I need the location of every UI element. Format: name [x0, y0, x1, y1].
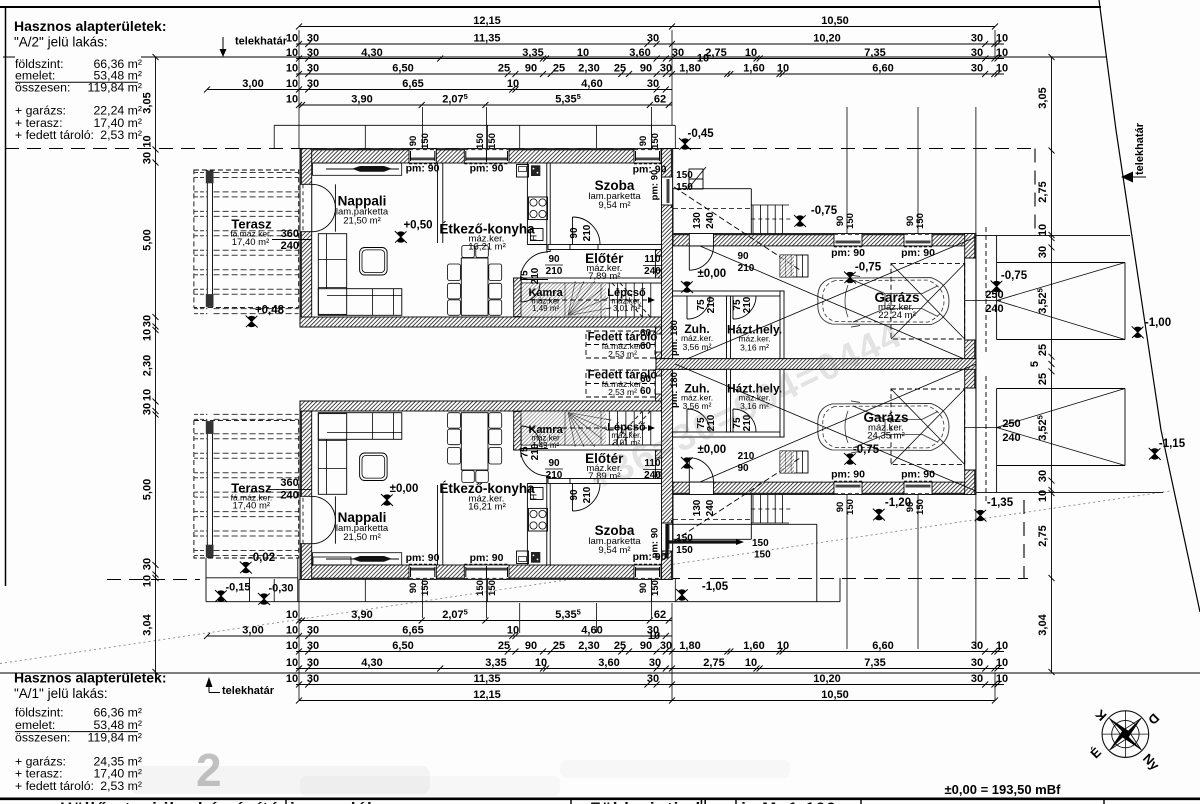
compass rose [1102, 711, 1149, 758]
svg-text:150: 150 [676, 170, 693, 181]
svg-text:90: 90 [638, 136, 649, 147]
svg-text:1,60: 1,60 [743, 63, 764, 75]
vertical dim chain right [1051, 57, 1053, 151]
unit A/1 zuh/hazt divider [727, 369, 731, 432]
svg-text:2,75: 2,75 [703, 657, 724, 669]
svg-text:3,60: 3,60 [598, 657, 619, 669]
unit A/1 window W1 90/150 [409, 565, 436, 579]
dim row top 1 (12,15 / 10,50) [299, 26, 995, 28]
svg-text:25: 25 [498, 63, 510, 75]
svg-text:-1,00: -1,00 [1145, 317, 1171, 329]
svg-text:30: 30 [971, 673, 983, 685]
unit A/2 exterior stair by porch [752, 205, 754, 234]
svg-text:30: 30 [142, 403, 154, 415]
telekhatar arrow+label top [222, 37, 224, 49]
unit A/1 zuh door [686, 409, 688, 432]
page frame left border [5, 7, 7, 586]
svg-text:4,60: 4,60 [581, 78, 602, 90]
svg-text:pm: 90: pm: 90 [406, 552, 440, 564]
svg-text:75: 75 [520, 446, 531, 458]
unit A/2 eloter left wall stubs [546, 280, 548, 283]
unit A/2 eloter window 110/240 [655, 256, 661, 270]
svg-text:75: 75 [520, 270, 531, 282]
svg-text:150: 150 [754, 550, 771, 561]
lower paved area outline [666, 523, 817, 525]
svg-text:90: 90 [548, 254, 560, 265]
svg-text:10: 10 [142, 135, 154, 147]
unit A/1 kitchen appliance dark [531, 552, 540, 563]
unit A/2 top wall [300, 149, 673, 163]
svg-text:-0,75: -0,75 [811, 205, 838, 217]
svg-text:4,30: 4,30 [361, 47, 382, 59]
terrace A/2 deck planks [214, 172, 299, 174]
svg-text:90: 90 [737, 251, 749, 262]
dim row top 3 (rooms) [296, 58, 1004, 60]
svg-text:30: 30 [307, 625, 319, 637]
unit A/2 left wall [300, 149, 312, 327]
svg-text:30: 30 [1037, 246, 1049, 258]
unit A/1 garage window G2 [904, 482, 932, 494]
svg-text:1,49 m²: 1,49 m² [532, 304, 559, 313]
svg-text:150: 150 [475, 133, 486, 149]
unit A/2 kitchen counter [526, 163, 528, 245]
dashed front-yard line top [5, 148, 1035, 150]
unit A/1 garage roof dashed rect [891, 389, 965, 464]
svg-text:210: 210 [738, 451, 755, 462]
svg-text:2,30: 2,30 [142, 355, 154, 376]
svg-text:30: 30 [142, 152, 154, 164]
dim row bottom 1 (3,90 row) [299, 620, 672, 622]
unit A/2 garage window G1 [834, 234, 862, 246]
unit A/2 kamra/lepcso divider [564, 283, 566, 317]
svg-text:10,20: 10,20 [813, 673, 841, 685]
unit A/2 entry door [689, 234, 713, 246]
svg-text:-0,02: -0,02 [249, 552, 275, 564]
svg-text:1,60: 1,60 [743, 640, 764, 652]
svg-text:240: 240 [985, 303, 1003, 315]
unit A/2 stairs lepcso [600, 283, 602, 317]
terrace A/1 posts [206, 421, 214, 434]
svg-text:25: 25 [553, 640, 565, 652]
svg-text:210: 210 [546, 266, 563, 277]
unit A/2 wing big X [700, 246, 976, 364]
svg-text:7,89 m²: 7,89 m² [588, 271, 620, 282]
unit A/1 stairs lepcso [600, 411, 602, 445]
svg-text:10,50: 10,50 [821, 15, 849, 27]
unit A/2 eloter right wall [655, 250, 661, 257]
svg-text:2,53 m²: 2,53 m² [100, 128, 142, 142]
terrace A/1 post rail [206, 421, 208, 558]
unit A/1 coffee table [360, 453, 388, 481]
svg-text:25: 25 [553, 63, 565, 75]
unit A/1 kitchen sink [517, 551, 529, 564]
svg-text:90: 90 [569, 489, 580, 501]
svg-text:210: 210 [742, 296, 753, 313]
svg-text:25: 25 [614, 640, 626, 652]
svg-text:összesen:: összesen: [15, 81, 70, 95]
unit A/1 hazt door [732, 409, 734, 432]
unit A/2 hazt door [732, 296, 734, 319]
unit A/2 window W3 szoba 90/150 [634, 149, 661, 163]
dim row top 4 (openings) [296, 73, 1004, 75]
unit A/2 window W2 double 150/150 [464, 149, 509, 163]
unit A/1 kamra/lepcso divider [564, 411, 566, 445]
unit A/2 kamra door [520, 283, 522, 302]
svg-text:30: 30 [307, 657, 319, 669]
unit A/2 outer contour stipple [300, 148, 673, 150]
unit A/1 stove [529, 508, 548, 531]
dim row bottom 2 (3,00 / 6,65) [207, 635, 672, 637]
svg-text:±0,00: ±0,00 [390, 483, 419, 495]
svg-text:30: 30 [307, 47, 319, 59]
unit A/1 partition kitchen/szoba wall [547, 477, 550, 566]
svg-text:12,15: 12,15 [473, 689, 501, 701]
site line bottom y673 [0, 672, 1200, 674]
svg-text:10: 10 [777, 640, 789, 652]
unit A/2 car [818, 275, 949, 327]
svg-text:10: 10 [286, 657, 298, 669]
unit A/2 strip top wall (kamra/lepcso) [514, 278, 662, 283]
upper canopy line above house [274, 124, 675, 126]
svg-text:pm: 180: pm: 180 [669, 320, 680, 356]
svg-text:3,56 m²: 3,56 m² [683, 342, 712, 352]
svg-text:30: 30 [307, 640, 319, 652]
svg-text:-0,30: -0,30 [268, 583, 293, 595]
svg-text:90: 90 [408, 583, 419, 594]
terrace A/2 post rail [206, 170, 208, 307]
unit A/2 partition nappali/etkezo [437, 163, 439, 243]
unit A/2 kamra left wall [514, 278, 521, 317]
svg-text:210: 210 [582, 224, 593, 241]
unit A/1 sofa [318, 414, 346, 495]
svg-text:21,50 m²: 21,50 m² [343, 532, 381, 543]
unit A/2 bottom wall (to storage strip) [300, 317, 662, 327]
svg-text:pm: 90: pm: 90 [831, 469, 865, 481]
svg-text:210: 210 [738, 263, 755, 274]
svg-text:30: 30 [142, 558, 154, 570]
svg-text:pm: 90: pm: 90 [470, 163, 504, 175]
unit A/1 strip top wall (kamra/lepcso) [514, 445, 662, 450]
unit A/2 fridge H [531, 229, 544, 241]
svg-text:+ fedett tároló:: + fedett tároló: [15, 779, 94, 793]
unit A/1 eloter left wall stubs [546, 445, 548, 448]
svg-text:10: 10 [286, 63, 298, 75]
unit A/1 kitchen counter [526, 484, 528, 566]
unit A/2 carport outline [976, 235, 1130, 237]
svg-text:10: 10 [996, 640, 1008, 652]
unit A/1 storage right wall pm180 [655, 369, 661, 401]
svg-text:6,65: 6,65 [402, 78, 423, 90]
unit A/2 fedett tarolo dashed outline [586, 331, 655, 358]
unit A/2 window W1 90/150 [409, 149, 436, 163]
svg-text:6,65: 6,65 [402, 625, 423, 637]
svg-text:30: 30 [971, 63, 983, 75]
unit A/1 wing big X [700, 364, 976, 482]
svg-text:150: 150 [845, 499, 856, 515]
unit A/1 szoba door [570, 479, 598, 484]
svg-text:3,04: 3,04 [1037, 613, 1049, 635]
svg-text:10: 10 [286, 625, 298, 637]
svg-text:25: 25 [1037, 344, 1049, 356]
unit A/2 szoba door [570, 245, 598, 250]
svg-text:"A/2" jelü lakás:: "A/2" jelü lakás: [14, 34, 108, 49]
unit A/2 coffee table [360, 248, 388, 276]
svg-text:2,30: 2,30 [578, 63, 599, 75]
svg-text:90: 90 [640, 63, 652, 75]
svg-text:150: 150 [420, 580, 431, 596]
unit A/1 kamra left wall [514, 411, 521, 450]
svg-text:10: 10 [286, 609, 298, 621]
svg-text:-0,15: -0,15 [225, 582, 250, 594]
svg-text:30: 30 [307, 673, 319, 685]
svg-text:3,90: 3,90 [351, 609, 372, 621]
unit A/1 bottom wall (to storage strip) [300, 401, 662, 411]
dim row bottom 6 (12,15 / 10,50) [299, 700, 995, 702]
dashed yard line bottom [666, 578, 1028, 580]
site line top y57 [3, 56, 15, 58]
svg-text:150: 150 [915, 213, 926, 229]
svg-text:150: 150 [650, 580, 661, 596]
svg-text:90: 90 [569, 227, 580, 239]
unit A/1 centre party wall [656, 359, 976, 370]
svg-text:10: 10 [142, 389, 154, 401]
svg-text:-1,15: -1,15 [1159, 438, 1186, 450]
svg-text:10: 10 [286, 33, 298, 45]
svg-text:360: 360 [281, 228, 299, 240]
svg-text:150: 150 [676, 545, 693, 556]
unit A/1 terrace double door [300, 496, 312, 543]
svg-text:10: 10 [697, 53, 709, 65]
unit A/2 zuh/hazt divider [727, 296, 731, 359]
svg-text:150: 150 [915, 499, 926, 515]
svg-text:2,30: 2,30 [578, 640, 599, 652]
svg-text:30: 30 [647, 673, 659, 685]
svg-text:2,75: 2,75 [1037, 181, 1049, 202]
unit A/1 szoba/eloter wall [548, 479, 662, 484]
svg-text:10,50: 10,50 [821, 689, 849, 701]
svg-text:6,60: 6,60 [872, 640, 893, 652]
svg-text:62: 62 [654, 94, 666, 106]
svg-text:pm: 180: pm: 180 [669, 372, 680, 408]
svg-text:pm: 90: pm: 90 [406, 163, 440, 175]
dim row top 5 (3,00 / 6,65 / 4,60) [207, 89, 672, 91]
extension lines bottom [298, 579, 300, 700]
svg-text:24,35 m²: 24,35 m² [867, 431, 905, 442]
lower door outside step [313, 557, 351, 565]
unit A/1 garage right wall [965, 362, 976, 495]
svg-text:150: 150 [475, 580, 486, 596]
unit A/1 zuh strip top wall [673, 432, 784, 437]
unit A/2 garage door opening [965, 258, 976, 340]
svg-text:110: 110 [644, 254, 661, 265]
unit A/2 hazt right wall [780, 291, 784, 359]
unit A/1 kamra door [520, 426, 522, 445]
svg-text:250: 250 [1002, 418, 1020, 430]
svg-text:130: 130 [692, 499, 703, 516]
unit A/1 garage wing top wall [673, 482, 976, 494]
svg-text:21,50 m²: 21,50 m² [343, 216, 381, 227]
svg-text:4,60: 4,60 [581, 625, 602, 637]
dim row bottom 4 (rooms) [296, 668, 1004, 670]
unit A/1 window W3 szoba 90/150 [634, 565, 661, 579]
svg-text:±0,00: ±0,00 [697, 268, 726, 280]
unit A/2 wall niche nappali [313, 163, 402, 175]
svg-text:60: 60 [640, 374, 652, 385]
vertical dim chain left [155, 57, 157, 672]
svg-text:10: 10 [286, 78, 298, 90]
dim row top 2 (11,35 / 10,20) [296, 43, 1004, 45]
svg-text:60: 60 [640, 341, 652, 352]
svg-text:10: 10 [1037, 490, 1049, 502]
svg-text:240: 240 [705, 212, 716, 229]
svg-text:1,80: 1,80 [679, 640, 700, 652]
dim row bottom 5 (11,35 / 10,20) [296, 684, 1004, 686]
unit A/2 kitchen appliance dark [531, 165, 540, 176]
unit A/1 carport outline [976, 491, 1163, 493]
svg-text:3,90: 3,90 [351, 94, 372, 106]
svg-text:+ fedett tároló:: + fedett tároló: [15, 128, 94, 142]
unit A/2 dining table [461, 258, 488, 315]
svg-text:3,04: 3,04 [142, 613, 154, 635]
svg-text:10: 10 [577, 47, 589, 59]
svg-text:30: 30 [142, 315, 154, 327]
svg-text:10: 10 [745, 657, 757, 669]
svg-text:2,75: 2,75 [1037, 525, 1049, 546]
svg-text:5,00: 5,00 [142, 479, 154, 500]
svg-text:pm: 90: pm: 90 [650, 528, 661, 559]
unit A/2 garage window G2 [904, 234, 932, 246]
svg-text:10: 10 [507, 78, 519, 90]
svg-text:2,53 m²: 2,53 m² [608, 387, 637, 397]
svg-text:10: 10 [996, 63, 1008, 75]
unit A/2 beam marker [326, 168, 399, 170]
svg-text:5: 5 [1029, 361, 1041, 367]
dim row bottom 3 (openings) [296, 651, 1004, 653]
svg-text:90: 90 [737, 463, 749, 474]
svg-text:30: 30 [971, 47, 983, 59]
svg-text:4,30: 4,30 [361, 657, 382, 669]
footer title bar [0, 797, 1200, 800]
svg-text:Hasznos alapterületek:: Hasznos alapterületek: [14, 670, 167, 686]
svg-text:3,60: 3,60 [629, 47, 650, 59]
unit A/2 szoba right wall [662, 149, 673, 359]
svg-text:210: 210 [546, 470, 563, 481]
svg-text:30: 30 [660, 63, 672, 75]
unit A/1 szoba side window [662, 523, 673, 551]
svg-text:25: 25 [498, 640, 510, 652]
svg-text:150: 150 [487, 580, 498, 596]
svg-text:16,21 m²: 16,21 m² [468, 242, 506, 253]
unit A/1 entry steps [665, 524, 668, 559]
svg-text:90: 90 [548, 458, 560, 469]
unit A/1 szoba right wall [662, 369, 673, 579]
svg-text:62: 62 [654, 609, 666, 621]
svg-text:30: 30 [971, 640, 983, 652]
svg-text:telekhatár: telekhatár [222, 685, 275, 697]
unit A/1 dining chairs [448, 448, 461, 465]
svg-text:6,60: 6,60 [872, 63, 893, 75]
svg-text:210: 210 [530, 443, 541, 460]
unit A/1 window W2 double 150/150 [464, 565, 509, 579]
svg-text:60: 60 [640, 386, 652, 397]
dashed yard vertical bottom right [1023, 500, 1025, 579]
svg-text:-1,35: -1,35 [987, 497, 1014, 509]
unit A/2 terrace double door [300, 184, 312, 231]
svg-text:2,53 m²: 2,53 m² [608, 349, 637, 359]
unit A/1 exterior stair by porch [752, 495, 754, 524]
svg-text:3,35: 3,35 [522, 47, 543, 59]
svg-text:119,84 m²: 119,84 m² [88, 731, 142, 745]
unit A/1 walkline diagonal [674, 458, 800, 541]
svg-text:3,01 m²: 3,01 m² [613, 304, 640, 313]
unit A/1 eloter window 110/240 [655, 458, 661, 472]
svg-text:10: 10 [777, 63, 789, 75]
unit A/1 dining table [461, 413, 488, 470]
svg-text:150: 150 [752, 538, 769, 549]
unit A/2 carport V truss [997, 263, 1125, 301]
svg-text:3,05: 3,05 [142, 92, 154, 113]
unit A/2 kitchen sink [517, 165, 529, 178]
svg-text:"A/1" jelü lakás:: "A/1" jelü lakás: [14, 686, 108, 701]
svg-text:3,05: 3,05 [1037, 87, 1049, 108]
terrace A/1 dashed outer rect [194, 421, 299, 558]
svg-text:±0,00 = 193,50 mBf: ±0,00 = 193,50 mBf [945, 782, 1062, 797]
svg-text:10: 10 [996, 47, 1008, 59]
unit A/2 sofa [318, 234, 346, 315]
svg-text:telekhatár: telekhatár [1134, 122, 1146, 175]
svg-text:150: 150 [676, 182, 693, 193]
svg-text:10: 10 [142, 575, 154, 587]
unit A/1 beam marker [326, 558, 399, 560]
unit A/1 eloter right wall [655, 472, 661, 479]
svg-text:240: 240 [644, 266, 661, 277]
svg-text:ü: ü [700, 797, 707, 804]
svg-text:90: 90 [525, 640, 537, 652]
lower ground line below house [206, 601, 840, 603]
svg-text:-1,20: -1,20 [885, 497, 911, 509]
unit A/1 entry door [689, 482, 713, 494]
svg-text:90: 90 [408, 136, 419, 147]
unit A/1 garage door opening [965, 388, 976, 470]
svg-text:210: 210 [706, 296, 717, 313]
svg-text:17,40 m²: 17,40 m² [233, 501, 271, 512]
svg-text:3,00: 3,00 [242, 78, 263, 90]
svg-text:240: 240 [281, 240, 299, 252]
svg-text:30: 30 [307, 78, 319, 90]
svg-text:12,15: 12,15 [473, 15, 501, 27]
svg-text:90: 90 [525, 63, 537, 75]
unit A/2 garage right wall [965, 234, 976, 367]
svg-text:6,50: 6,50 [392, 640, 413, 652]
dim row top 6 (3,90 / 2,07 / 5,35 / 62) [299, 104, 672, 106]
svg-text:11,35: 11,35 [474, 33, 501, 45]
terrace A/2 posts [206, 171, 214, 184]
svg-text:-0,75: -0,75 [855, 262, 882, 274]
unit A/1 small stair hall [780, 451, 808, 473]
svg-text:pm: 90: pm: 90 [901, 247, 935, 259]
svg-text:30: 30 [307, 33, 319, 45]
svg-text:6,50: 6,50 [392, 63, 413, 75]
svg-text:210: 210 [530, 267, 541, 284]
unit A/2 stove [529, 197, 548, 220]
svg-text:240: 240 [280, 489, 298, 501]
plot boundary telekhatar polyline right [1099, 0, 1200, 612]
svg-text:9,54 m²: 9,54 m² [598, 545, 630, 556]
unit A/2 szoba/eloter wall [548, 245, 662, 250]
svg-text:10,20: 10,20 [813, 33, 841, 45]
svg-text:10: 10 [996, 673, 1008, 685]
svg-text:30: 30 [971, 33, 983, 45]
